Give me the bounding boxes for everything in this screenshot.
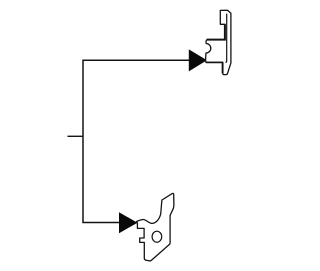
part: bracket (bottom), outer outline	[137, 193, 174, 261]
wire: leader lines from junction to both arrows	[83, 60, 190, 222]
part: clip bottom edge and heel (slightly heavy)	[206, 62, 222, 73]
wire: short tick on left of vertical line	[68, 135, 84, 137]
part: rail inner edge line	[226, 14, 227, 63]
part: rail with clip (top-right), outer outline	[206, 10, 231, 74]
hole in bracket	[152, 231, 162, 242]
part: clip top edge (thick)	[207, 24, 225, 39]
arrowhead (top, pointing right at rail clip)	[189, 50, 206, 71]
arrowhead (bottom, pointing right at bracket)	[119, 213, 137, 233]
